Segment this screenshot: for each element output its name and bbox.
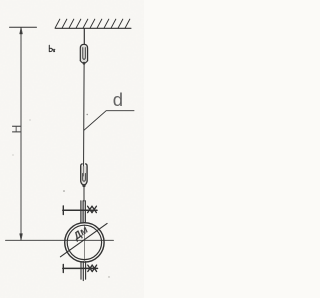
svg-text:d: d (113, 89, 123, 110)
paper background (0, 0, 144, 298)
diagonal line through circle (60, 223, 107, 256)
device circle outer (65, 223, 104, 262)
top loop interior shade (80, 44, 87, 63)
horizontal centerline (6, 239, 114, 241)
ceiling hatch (55, 19, 130, 28)
scan speckles (87, 114, 88, 115)
dimension arrow top (20, 27, 23, 34)
top suspension loop (clevis) outer (80, 44, 87, 61)
upper fitting bar (63, 209, 97, 211)
ceiling line (56, 27, 132, 29)
long wire d (83, 64, 86, 176)
top loop inner thimble (83, 48, 86, 60)
bottom stem (three lines) (80, 262, 82, 280)
upper fitting left tick (62, 206, 64, 215)
dimension arrow bottom (20, 234, 23, 241)
device circle inner (67, 225, 101, 259)
upper fitting xx marks (88, 206, 92, 212)
lower fork outer right (84, 164, 87, 185)
dimension line H (vertical) (20, 27, 22, 240)
lower fork (clevis) outer left (81, 164, 84, 185)
small label near hanger (49, 45, 55, 51)
stem single (83, 187, 85, 201)
bottom fitting left tick (62, 264, 64, 272)
vertical centerline (83, 225, 85, 261)
bottom fitting bar (63, 267, 98, 269)
stem tube (three lines) (80, 201, 82, 223)
svg-text:H: H (10, 125, 24, 134)
lower fork inner loop (83, 174, 86, 182)
lower fork knot (82, 184, 85, 187)
lower fork interior shade (81, 166, 87, 184)
hanger wire from ceiling (83, 29, 85, 45)
leader line for d (84, 111, 134, 131)
bottom fitting xx marks (88, 265, 92, 271)
top loop knot (83, 62, 86, 65)
dimension extension tick (top left) (10, 26, 37, 28)
